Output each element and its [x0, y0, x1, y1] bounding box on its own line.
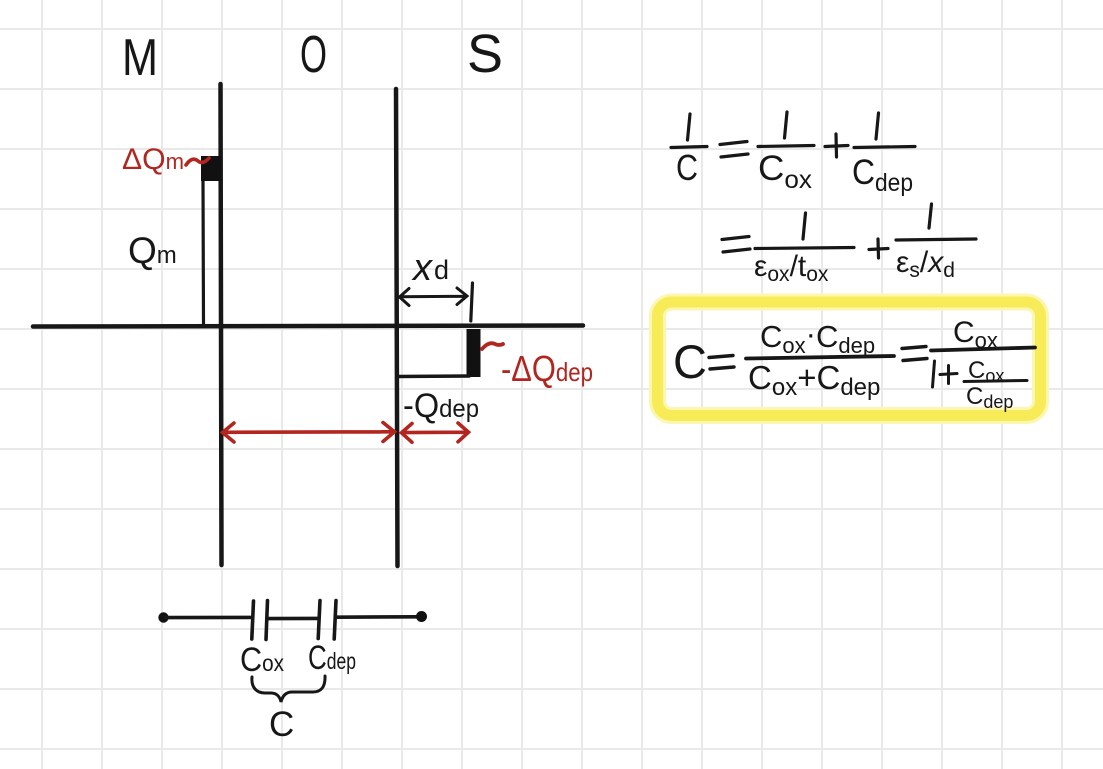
wire: fraction bar 1/Cdep	[854, 147, 915, 148]
label small numerator Cox	[968, 357, 1004, 386]
svg-text:-ΔQdep: -ΔQdep	[501, 348, 593, 389]
wire: red squiggle pointer to -delta-Qdep block	[482, 343, 503, 349]
svg-text:Qm: Qm	[128, 230, 177, 271]
label numerator Cox.Cdep	[760, 316, 875, 358]
label numerator Cox (rhs)	[953, 316, 998, 353]
yellow highlight box	[658, 302, 1041, 416]
wire: xd right tick mark	[471, 283, 473, 321]
label O (oxide region)	[300, 26, 327, 84]
label Cdep denominator	[852, 153, 913, 197]
svg-text:εox/tox: εox/tox	[754, 250, 829, 286]
label -delta-Qdep (red)	[501, 348, 593, 389]
wire: fraction bar 1/C	[671, 147, 707, 148]
wire: depletion charge bottom edge	[397, 374, 469, 378]
node: left circuit terminal dot	[158, 612, 168, 622]
svg-text:C: C	[676, 147, 698, 188]
svg-text:C: C	[269, 705, 294, 744]
wire: second equals sign boxed	[902, 347, 927, 361]
svg-text:x: x	[411, 247, 434, 289]
wire: M/O interface vertical line	[221, 84, 222, 565]
label eps_ox / t_ox	[754, 250, 829, 286]
wire: equals sign	[720, 142, 748, 158]
svg-text:Cox: Cox	[758, 149, 813, 194]
svg-text:Cox: Cox	[240, 641, 284, 679]
label small denominator Cdep	[966, 383, 1013, 412]
node Qm charge column left edge	[201, 180, 205, 325]
node: numeral 1 over eps_ox/t_ox	[803, 213, 806, 239]
capacitor Cdep plates	[318, 601, 336, 640]
wire: plus sign	[825, 134, 848, 157]
wire: plus in 1+	[940, 366, 957, 384]
wire: under-brace for series combination	[252, 676, 325, 702]
label delta-Qm (red)	[122, 143, 184, 176]
svg-text:C: C	[673, 335, 707, 388]
wire: red double arrow across oxide	[223, 423, 395, 443]
label Cox (capacitor value)	[240, 641, 284, 679]
node -delta-Qdep filled charge block	[467, 329, 481, 377]
wire: rhs main fraction bar	[931, 348, 1035, 351]
capacitor Cox plates	[252, 601, 268, 640]
label Cox denominator	[758, 149, 813, 194]
wire: small fraction bar Cox/Cdep	[964, 381, 1027, 382]
svg-text:-Qdep: -Qdep	[403, 387, 479, 425]
node: numeral 1 over Cdep	[876, 113, 879, 139]
svg-text:S: S	[467, 24, 503, 84]
wire: xd dimension double arrow	[400, 288, 468, 306]
label S (semiconductor region)	[467, 24, 503, 84]
node: numeral 1 over Cox	[785, 112, 788, 138]
svg-text:Cox+Cdep: Cox+Cdep	[748, 359, 880, 401]
label denominator Cox+Cdep	[748, 359, 880, 401]
wire: left lead	[166, 616, 250, 620]
svg-text:Cdep: Cdep	[852, 153, 913, 197]
node: numeral 1 over C	[688, 114, 691, 140]
node delta-Qm filled charge block	[201, 156, 221, 181]
node: right circuit terminal dot	[416, 611, 427, 622]
label eps_s / x_d	[896, 246, 955, 282]
label C (total capacitance)	[269, 705, 294, 744]
wire: plus sign row 2	[869, 239, 888, 258]
svg-text:d: d	[434, 255, 449, 285]
label xd (depletion width)	[411, 247, 449, 289]
wire: O/S interface vertical line	[396, 89, 398, 566]
svg-text:O: O	[300, 26, 327, 84]
wire: red squiggle pointer to delta-Qm block	[186, 158, 209, 165]
wire: fraction bar over eps_s/x_d	[896, 239, 976, 240]
label C denominator	[676, 147, 698, 188]
label Cdep (capacitor value)	[308, 639, 356, 677]
label M (metal region)	[122, 29, 158, 87]
wire: middle lead between capacitors	[268, 617, 317, 621]
label -Qdep	[403, 387, 479, 425]
wire: equals sign boxed	[709, 356, 734, 370]
label Qm	[128, 230, 177, 271]
svg-text:Cdep: Cdep	[308, 639, 356, 677]
svg-text:Cox·Cdep: Cox·Cdep	[760, 316, 875, 358]
wire: fraction bar 1/Cox	[758, 146, 814, 147]
node: numeral 1 in 1+	[933, 361, 935, 387]
wire: horizontal charge axis	[33, 326, 583, 327]
node: numeral 1 over eps_s/x_d	[929, 204, 932, 228]
yellow highlight box halo	[658, 302, 1041, 416]
wire: fraction bar over eps_ox/t_ox	[755, 248, 854, 249]
wire: main fraction bar Cox.Cdep / Cox+Cdep	[746, 356, 894, 359]
svg-text:εs/xd: εs/xd	[896, 246, 955, 282]
wire: equals sign row 2	[722, 237, 750, 253]
wire: red double arrow across depletion	[402, 423, 469, 442]
svg-text:Cdep: Cdep	[966, 383, 1013, 412]
svg-text:M: M	[122, 29, 158, 87]
svg-text:ΔQm: ΔQm	[122, 143, 184, 176]
label C lhs	[673, 335, 707, 388]
wire: right lead	[337, 615, 417, 619]
